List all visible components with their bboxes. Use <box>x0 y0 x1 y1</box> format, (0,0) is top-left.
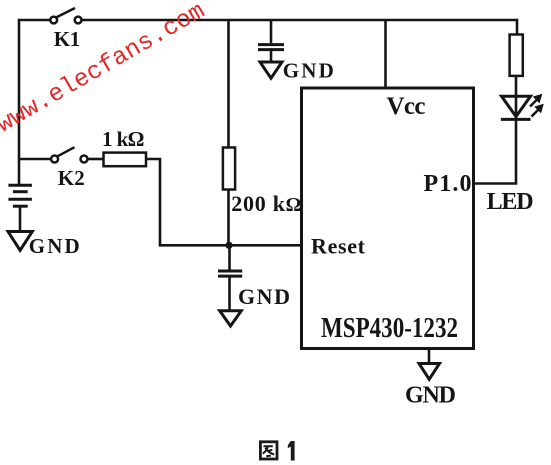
LED D1 <box>501 96 531 119</box>
wire Vcc drop <box>384 20 387 88</box>
LED light arrow upper <box>530 94 542 107</box>
resistor R1 <box>104 153 147 167</box>
battery B1 <box>8 159 32 231</box>
svg-text:LED: LED <box>487 189 534 215</box>
switch K1 <box>50 8 81 23</box>
svg-text:GND: GND <box>405 383 456 409</box>
wire left rail <box>18 19 21 159</box>
ground C2 <box>220 311 242 326</box>
wire R3 to LED <box>515 76 518 96</box>
svg-text:GND: GND <box>283 59 334 83</box>
node Reset junction <box>225 242 232 249</box>
ground C1 <box>260 62 282 78</box>
wire LED to P1.0 <box>474 119 517 183</box>
wire battery to K2 <box>19 158 51 161</box>
op-amp U1 MSP430-1232 box <box>302 88 474 349</box>
svg-text:K2: K2 <box>58 166 85 190</box>
svg-text:K1: K1 <box>54 27 81 51</box>
svg-text:Vcc: Vcc <box>387 93 426 120</box>
resistor R3 <box>510 35 523 76</box>
caption figure number 1 <box>288 441 295 461</box>
wire K2 to R1 <box>88 158 104 161</box>
wire R1 to Reset node <box>146 159 302 245</box>
wire R2 to node <box>227 190 230 246</box>
capacitor C2 <box>218 245 242 310</box>
ground battery <box>8 232 32 251</box>
resistor R2 <box>223 148 235 190</box>
svg-text:P1.0: P1.0 <box>424 171 472 197</box>
svg-text:GND: GND <box>238 284 290 309</box>
caption figure 1 glyph tu <box>260 442 277 459</box>
capacitor C1 <box>258 20 284 62</box>
wire top bus main segment <box>81 19 517 22</box>
svg-text:1 kΩ: 1 kΩ <box>102 127 145 151</box>
wire bus to R2 <box>227 20 230 148</box>
wire bus corner to R3 <box>516 19 519 35</box>
ground U1 <box>419 349 440 380</box>
switch K2 <box>51 147 87 162</box>
svg-text:MSP430-1232: MSP430-1232 <box>321 313 458 344</box>
svg-text:200 kΩ: 200 kΩ <box>231 191 301 216</box>
svg-text:Reset: Reset <box>311 233 366 258</box>
wire top bus left segment <box>19 19 50 22</box>
svg-text:GND: GND <box>29 234 80 258</box>
LED light arrow lower <box>532 104 544 117</box>
